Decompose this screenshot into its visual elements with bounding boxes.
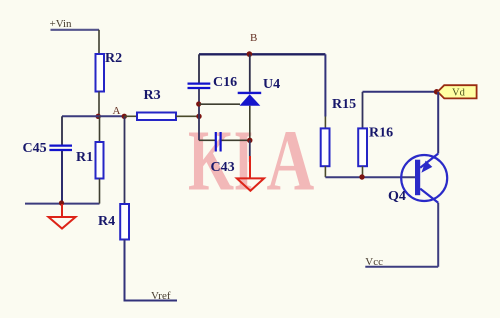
junction dot Vd bbox=[434, 89, 440, 95]
watermark KIA bbox=[188, 112, 314, 210]
capacitor C43 bbox=[216, 132, 221, 152]
ground symbol left bbox=[49, 204, 76, 229]
svg-text:Vref: Vref bbox=[151, 290, 171, 302]
resistor R4 bbox=[120, 204, 129, 240]
power port Vd bbox=[438, 85, 477, 98]
wire R16 bottom lead bbox=[362, 166, 364, 177]
wire R15 branch bbox=[324, 54, 326, 116]
svg-text:C16: C16 bbox=[213, 75, 237, 90]
svg-text:R15: R15 bbox=[332, 97, 356, 112]
resistor R15 bbox=[321, 128, 330, 166]
svg-text:C43: C43 bbox=[211, 160, 235, 175]
resistor R2 bbox=[96, 54, 105, 92]
wire U4 anode to C43 node bbox=[249, 106, 251, 141]
svg-text:R2: R2 bbox=[105, 51, 122, 66]
wire node A horizontal bbox=[62, 115, 125, 117]
wire C43 left lead bbox=[199, 139, 215, 141]
svg-text:Vcc: Vcc bbox=[365, 256, 383, 268]
junction dot R3 left bbox=[122, 114, 127, 119]
junction dot R16-base bbox=[359, 174, 364, 179]
wire C16 branch upper bbox=[198, 54, 200, 82]
wire U4 cathode lead bbox=[249, 54, 251, 92]
capacitor C45 bbox=[49, 146, 72, 150]
ground symbol middle bbox=[237, 156, 264, 191]
wire C16 branch lower bbox=[198, 89, 200, 140]
wire R2 bottom lead bbox=[98, 92, 100, 117]
wire R1 bottom lead bbox=[99, 179, 101, 204]
junction dot C43-U4 bbox=[247, 138, 252, 143]
svg-text:R1: R1 bbox=[76, 150, 93, 165]
wire C45 bottom lead bbox=[61, 151, 63, 204]
junction dot R3 right bbox=[196, 114, 201, 119]
wire R15 bottom pin bbox=[324, 166, 326, 177]
transistor Q4 bbox=[401, 154, 447, 203]
wire +Vin rail bbox=[51, 29, 100, 31]
diode U4 bbox=[238, 93, 262, 106]
wire C43 right lead bbox=[222, 139, 250, 141]
resistor R1 bbox=[96, 142, 104, 179]
node B junction dot bbox=[247, 51, 253, 57]
wire R16 top lead bbox=[362, 92, 364, 129]
wire R4 branch bbox=[124, 116, 126, 204]
svg-text:R4: R4 bbox=[98, 214, 115, 229]
wire ground rail left bbox=[25, 203, 100, 205]
wire R3 left lead bbox=[125, 115, 138, 117]
svg-text:R3: R3 bbox=[144, 88, 161, 103]
svg-text:R16: R16 bbox=[369, 126, 393, 141]
svg-text:Vd: Vd bbox=[452, 88, 466, 99]
svg-text:C45: C45 bbox=[23, 141, 47, 156]
wire R3 right lead bbox=[176, 115, 199, 117]
wire Q4 collector up bbox=[437, 92, 439, 154]
wire Vcc rail bbox=[365, 266, 438, 268]
svg-text:A: A bbox=[113, 105, 121, 117]
svg-text:+Vin: +Vin bbox=[50, 18, 73, 30]
svg-text:Q4: Q4 bbox=[388, 189, 406, 204]
svg-text:B: B bbox=[250, 32, 257, 44]
wire R1 top lead bbox=[99, 116, 101, 142]
wire R15 top pin bbox=[324, 117, 326, 129]
wire R2 top lead bbox=[98, 30, 100, 55]
node A junction dot bbox=[96, 114, 101, 119]
resistor R16 bbox=[358, 128, 367, 166]
junction dot U4 anode tap bbox=[196, 101, 201, 106]
wire R4 to Vref bbox=[125, 240, 178, 301]
junction dot C45-ground bbox=[59, 200, 64, 205]
wire C45 top lead bbox=[61, 116, 63, 144]
resistor R3 bbox=[137, 113, 176, 121]
wire node B rail bbox=[199, 53, 325, 55]
capacitor C16 bbox=[188, 84, 211, 88]
wire base rail bbox=[325, 176, 415, 178]
wire to ground middle bbox=[249, 140, 251, 162]
wire U4 anode bbox=[199, 103, 240, 105]
svg-text:U4: U4 bbox=[263, 77, 280, 92]
svg-text:A: A bbox=[267, 112, 315, 209]
wire Vd rail bbox=[363, 91, 437, 93]
wire Q4 emitter down bbox=[437, 203, 439, 267]
